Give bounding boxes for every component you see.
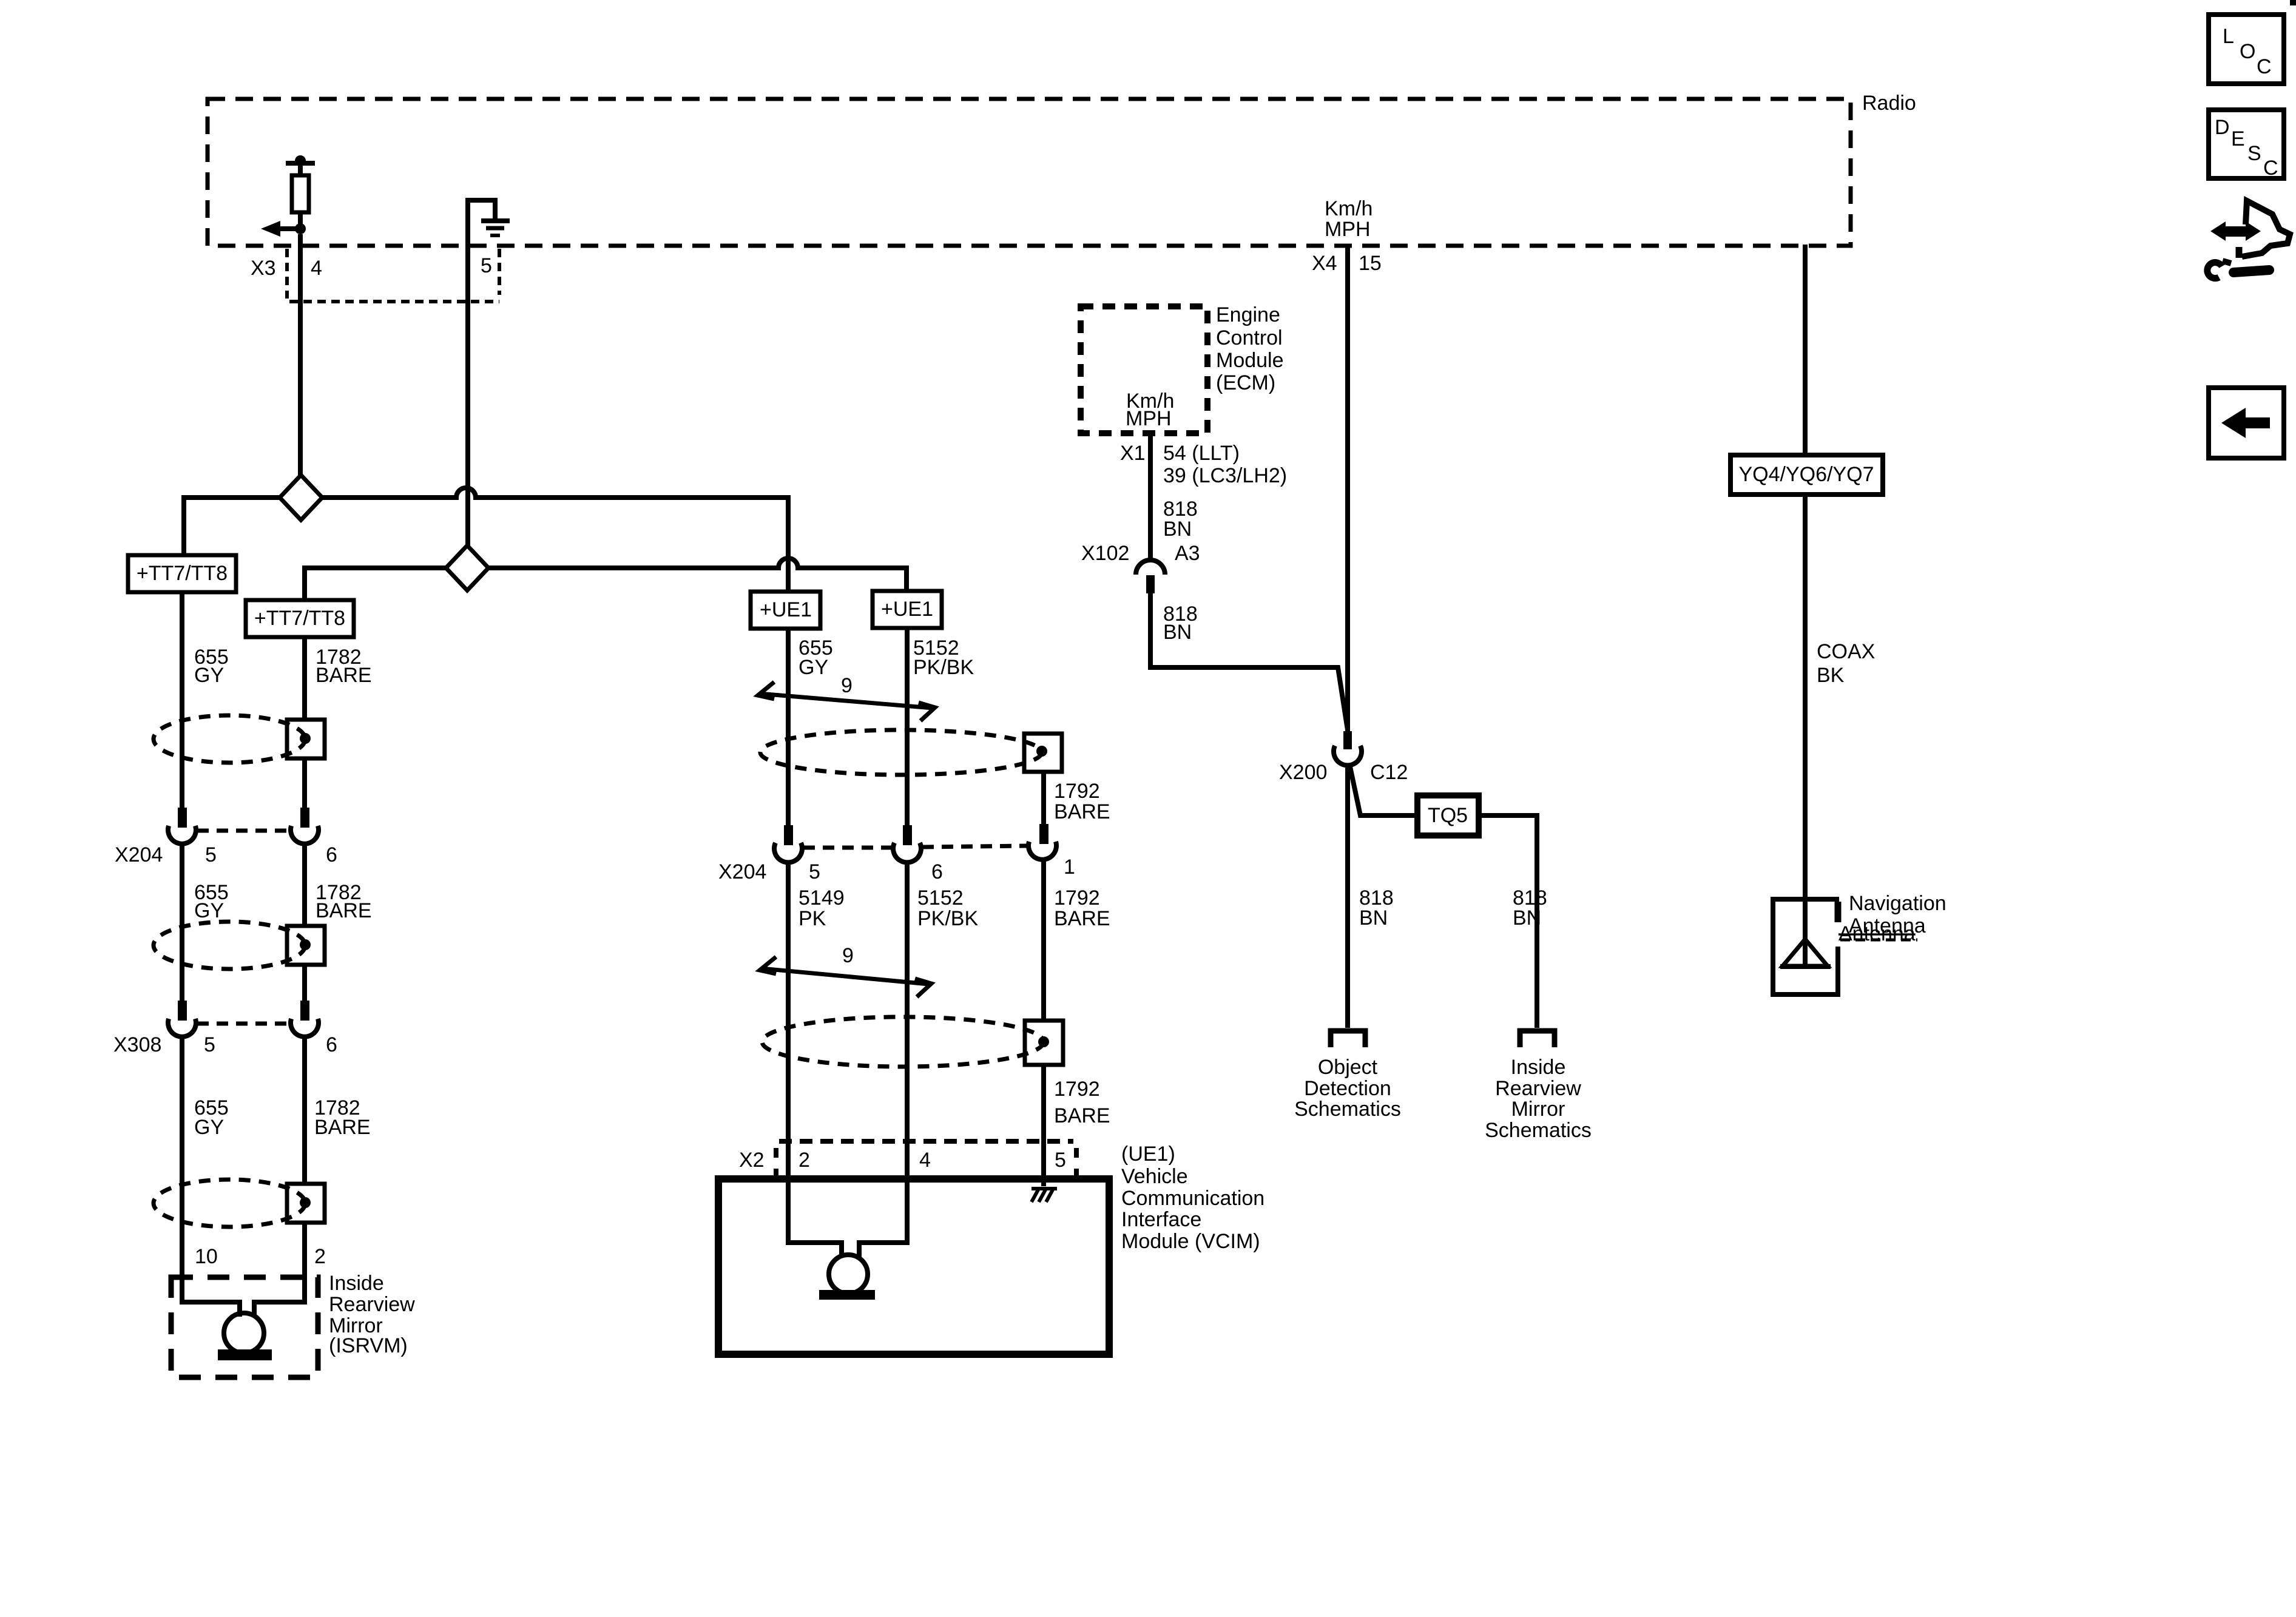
svg-text:4: 4 — [919, 1149, 931, 1172]
svg-text:6: 6 — [931, 860, 943, 883]
wire drop 1494 to +UE1 box 2 — [904, 565, 909, 591]
wire TQ5 to inside rearview mirror schematics — [1479, 815, 1537, 1028]
drain dot 2 (left) — [300, 939, 311, 950]
svg-text:5: 5 — [205, 843, 217, 866]
shield drain box 2 (left) — [287, 926, 325, 965]
svg-text:(UE1): (UE1) — [1121, 1143, 1175, 1166]
drain dot 1 (left) — [300, 733, 311, 744]
svg-text:BARE: BARE — [316, 899, 372, 922]
VCIM module box — [718, 1179, 1109, 1354]
wire 1782 BARE segment 3 — [302, 1038, 307, 1302]
ISRVM mirror lamp symbol — [224, 1313, 264, 1353]
svg-text:PK/BK: PK/BK — [913, 656, 974, 679]
svg-text:39 (LC3/LH2): 39 (LC3/LH2) — [1163, 464, 1287, 487]
svg-text:X2: X2 — [739, 1149, 765, 1172]
connector X204 pin6 socket — [291, 826, 319, 844]
wire from diamond A left to +TT7/TT8 box 1 — [184, 498, 281, 555]
svg-text:Antenna: Antenna — [1838, 922, 1916, 945]
svg-text:C: C — [2263, 157, 2278, 180]
splice pack box +TT7/TT8 no.1 — [128, 555, 236, 592]
svg-text:BN: BN — [1359, 906, 1388, 930]
DESC nav button box — [2209, 110, 2284, 178]
svg-text:5149: 5149 — [799, 886, 845, 910]
wire 655 GY segment 3 — [180, 1038, 184, 1302]
connector X308 pin5 terminal bar — [178, 1001, 187, 1021]
svg-text:+TT7/TT8: +TT7/TT8 — [254, 607, 345, 630]
connector X204 pin1 terminal bar (mid) — [1039, 824, 1048, 844]
wire radio to YQ4 box — [1803, 245, 1808, 455]
connector X204 pin6 terminal bar (mid) — [903, 825, 912, 845]
splice pack box +UE1 no.1 — [751, 592, 820, 629]
connector X308 dashed tie line — [197, 1022, 289, 1026]
svg-text:Engine: Engine — [1216, 303, 1280, 326]
svg-text:YQ4/YQ6/YQ7: YQ4/YQ6/YQ7 — [1739, 463, 1874, 486]
navigation antenna box — [1773, 899, 1839, 994]
svg-text:9: 9 — [841, 674, 853, 697]
svg-text:1792: 1792 — [1054, 1078, 1100, 1101]
svg-text:C12: C12 — [1370, 761, 1408, 784]
wire 655 GY (mid seg1) — [786, 629, 791, 825]
drain dot 1 (mid) — [1036, 746, 1047, 757]
svg-text:15: 15 — [1359, 252, 1382, 275]
svg-text:BARE: BARE — [316, 664, 372, 687]
svg-text:(ECM): (ECM) — [1216, 371, 1275, 394]
wire 1792 BARE (mid seg3) — [1041, 1065, 1046, 1186]
wire 655 GY segment 1 — [180, 592, 184, 808]
wire 655 GY segment 2 — [180, 845, 184, 1001]
svg-text:COAX: COAX — [1817, 640, 1875, 663]
svg-text:BARE: BARE — [314, 1116, 371, 1139]
svg-text:GY: GY — [799, 656, 828, 679]
VCIM lamp left leg — [788, 1179, 842, 1257]
svg-text:X4: X4 — [1312, 252, 1337, 275]
wire 5149 PK (mid seg2) — [786, 862, 791, 1179]
wire 1782 BARE segment 1 — [302, 637, 307, 808]
shield ellipse 2 (left) — [154, 922, 305, 969]
connector X204 pin1 socket (mid) — [1028, 842, 1056, 860]
svg-text:X3: X3 — [251, 257, 276, 280]
wire X200 to TQ5 — [1349, 764, 1417, 815]
connector X2 right pin dash — [1074, 1148, 1079, 1177]
wire into ISRVM lamp left leg — [180, 1300, 184, 1305]
svg-text:X308: X308 — [113, 1033, 161, 1056]
svg-text:5: 5 — [809, 860, 820, 883]
wire pin4 radio to diamond — [298, 234, 303, 476]
svg-text:MPH: MPH — [1126, 407, 1172, 430]
svg-text:L: L — [2223, 25, 2234, 48]
shield ellipse 1 (mid) — [760, 730, 1042, 775]
connector X102 socket — [1136, 560, 1165, 575]
splice pack box +TT7/TT8 no.2 — [246, 600, 354, 637]
VCIM lamp right leg — [859, 1179, 907, 1257]
svg-text:MPH: MPH — [1325, 218, 1371, 241]
shield drain box 2 (mid) — [1025, 1021, 1063, 1065]
wire 1792 BARE (mid seg2) — [1041, 860, 1046, 1021]
ECM dashed box — [1081, 306, 1207, 433]
svg-text:2: 2 — [314, 1245, 326, 1268]
shield ellipse 2 (mid) — [762, 1017, 1044, 1067]
connector X308 pin6 socket — [291, 1019, 319, 1037]
adjust/tool icon: wrench — [2207, 261, 2269, 279]
wire pin5 radio ground to diamond B — [465, 245, 470, 547]
svg-text:1: 1 — [1064, 856, 1075, 879]
connector X204 dashed tie line (mid) — [803, 846, 892, 850]
diamond junction B — [446, 545, 488, 590]
svg-text:Rearview: Rearview — [329, 1293, 415, 1316]
wire drop 1299 to +UE1 box 1 — [786, 495, 791, 592]
svg-text:10: 10 — [195, 1245, 218, 1268]
Radio module dashed box — [208, 99, 1851, 246]
svg-text:BN: BN — [1163, 518, 1192, 541]
svg-text:2: 2 — [799, 1149, 810, 1172]
svg-text:(ISRVM): (ISRVM) — [329, 1334, 408, 1357]
connector X308 pin6 terminal bar — [300, 1001, 309, 1021]
signal arrow (serial data into radio) — [261, 221, 300, 237]
wire 5152 PK/BK (mid seg1) — [905, 628, 910, 825]
in-line box TQ5 — [1417, 795, 1479, 836]
ground G (radio internal) — [468, 200, 510, 245]
shield drain box 1 (mid) — [1024, 734, 1062, 772]
svg-text:PK/BK: PK/BK — [917, 907, 978, 930]
svg-text:+TT7/TT8: +TT7/TT8 — [137, 562, 228, 585]
svg-text:9: 9 — [842, 944, 854, 967]
svg-text:5152: 5152 — [917, 886, 964, 910]
connector X204 dashed tie line — [197, 829, 289, 833]
svg-text:Communication: Communication — [1121, 1187, 1264, 1210]
connector X102 terminal bar — [1146, 575, 1155, 593]
wire bus from diamond A to drop at 1299 (hop over 771) — [321, 488, 788, 498]
shield drain box 1 (left) — [287, 720, 325, 758]
VCIM lamp symbol — [829, 1255, 868, 1294]
svg-text:5: 5 — [1055, 1149, 1066, 1172]
connector X204 pin5 terminal bar — [178, 808, 187, 828]
svg-text:BN: BN — [1513, 906, 1541, 930]
wire X4 radio to X200 — [1345, 246, 1350, 731]
connector X200 socket — [1334, 746, 1362, 765]
svg-text:X204: X204 — [718, 860, 766, 883]
splice pack box +UE1 no.2 — [873, 591, 942, 628]
back arrow button box — [2209, 388, 2284, 458]
svg-text:1792: 1792 — [1054, 780, 1100, 803]
svg-text:5: 5 — [204, 1033, 215, 1056]
svg-text:Mirror: Mirror — [1511, 1098, 1565, 1121]
svg-text:Module: Module — [1216, 349, 1284, 372]
svg-text:1792: 1792 — [1054, 886, 1100, 910]
RPO box YQ4/YQ6/YQ7 — [1730, 455, 1883, 495]
antenna base line — [1780, 964, 1831, 969]
svg-text:GY: GY — [194, 899, 224, 922]
svg-text:TQ5: TQ5 — [1428, 804, 1468, 827]
connector X204 pin5 terminal bar (mid) — [784, 825, 793, 845]
svg-text:C: C — [2257, 55, 2272, 78]
twisted pair slash 1 — [758, 682, 935, 721]
svg-text:X1: X1 — [1120, 442, 1146, 465]
back arrow glyph — [2221, 408, 2270, 438]
svg-text:6: 6 — [326, 843, 337, 866]
svg-text:X102: X102 — [1081, 542, 1129, 565]
coax wire YQ4 to navigation antenna — [1803, 495, 1808, 939]
svg-text:Module (VCIM): Module (VCIM) — [1121, 1230, 1260, 1253]
page corner mark — [2290, 0, 2296, 5]
svg-text:Object: Object — [1318, 1056, 1378, 1079]
svg-text:BARE: BARE — [1054, 1104, 1110, 1127]
VCIM ground symbol — [1032, 1189, 1057, 1202]
connector X200 terminal bar — [1343, 731, 1352, 749]
svg-text:Rearview: Rearview — [1495, 1077, 1581, 1100]
wire 1792 BARE (mid seg1) — [1041, 772, 1046, 824]
connector X204 pin5 socket (mid) — [774, 843, 802, 862]
svg-text:X204: X204 — [115, 843, 163, 866]
svg-text:54 (LLT): 54 (LLT) — [1163, 442, 1240, 465]
wire from diamond B left to +TT7/TT8 box 2 — [305, 568, 447, 600]
wire bus from diamond B to drop at 1494 (hop over 1299) — [487, 558, 907, 568]
connector X2 left pin dash — [774, 1148, 778, 1177]
svg-text:GY: GY — [194, 1116, 224, 1139]
off-page bracket (object detection) — [1331, 1031, 1365, 1047]
connector X204 pin6 terminal bar — [300, 808, 309, 828]
svg-text:BARE: BARE — [1054, 907, 1110, 930]
svg-text:Inside: Inside — [329, 1272, 384, 1295]
drain dot 2 (mid) — [1038, 1036, 1049, 1047]
connector X3 dashed outline — [287, 249, 499, 302]
drain dot 3 (left) — [300, 1197, 311, 1208]
connector X308 pin5 socket — [168, 1019, 196, 1037]
junction node on pin 4 wire — [295, 223, 306, 234]
connector X204 pin5 socket — [168, 826, 196, 844]
ISRVM dashed box — [171, 1277, 318, 1377]
svg-text:BARE: BARE — [1054, 800, 1110, 823]
svg-text:Detection: Detection — [1304, 1077, 1391, 1100]
svg-text:Km/h: Km/h — [1325, 197, 1373, 220]
svg-text:4: 4 — [311, 257, 322, 280]
adjust/tool icon: double arrow — [2210, 221, 2261, 241]
connector X204 pin6 socket (mid) — [893, 843, 921, 862]
svg-text:Navigation: Navigation — [1849, 892, 1947, 915]
twisted pair slash 2 — [760, 957, 931, 997]
svg-text:Control: Control — [1216, 326, 1283, 349]
diamond junction A — [280, 475, 322, 520]
connector X2 dashed tie line — [779, 1139, 1073, 1144]
svg-text:6: 6 — [326, 1033, 337, 1056]
wire ECM X1 to X102 — [1148, 433, 1153, 560]
shield ellipse 3 (left) — [154, 1180, 305, 1227]
svg-text:E: E — [2231, 127, 2245, 150]
svg-text:+UE1: +UE1 — [760, 598, 812, 621]
svg-text:Radio: Radio — [1862, 92, 1916, 115]
svg-text:Schematics: Schematics — [1485, 1119, 1592, 1142]
wire 1782 BARE segment 2 — [302, 845, 307, 1001]
wire 5152 PK/BK (mid seg2) — [905, 862, 910, 1179]
svg-text:O: O — [2240, 40, 2255, 63]
svg-text:BK: BK — [1817, 664, 1845, 687]
svg-text:+UE1: +UE1 — [881, 598, 933, 621]
wire 818 BN X200 to object detection — [1345, 764, 1350, 1028]
svg-text:Interface: Interface — [1121, 1208, 1201, 1231]
svg-text:GY: GY — [194, 664, 224, 687]
svg-text:PK: PK — [799, 907, 826, 930]
off-page bracket (inside rearview mirror) — [1520, 1031, 1555, 1047]
shield ellipse 1 (left) — [154, 715, 305, 763]
svg-text:D: D — [2215, 116, 2230, 139]
adjust/tool icon: pointer outline — [2242, 201, 2290, 257]
svg-text:Schematics: Schematics — [1294, 1098, 1401, 1121]
svg-text:Vehicle: Vehicle — [1121, 1165, 1188, 1188]
svg-text:Inside: Inside — [1511, 1056, 1566, 1079]
svg-text:BN: BN — [1163, 621, 1192, 644]
svg-text:X200: X200 — [1279, 761, 1327, 784]
antenna symbol triangle — [1783, 939, 1828, 966]
svg-text:5: 5 — [481, 254, 492, 277]
svg-text:A3: A3 — [1175, 542, 1200, 565]
shield drain box 3 (left) — [287, 1184, 325, 1223]
wire 818 BN X102 to X200 jog — [1150, 593, 1348, 730]
svg-text:S: S — [2247, 142, 2261, 165]
wire into ISRVM lamp right leg — [254, 1300, 305, 1317]
resistor R (radio internal pull-up) — [286, 155, 315, 229]
LOC nav button box — [2209, 15, 2284, 84]
